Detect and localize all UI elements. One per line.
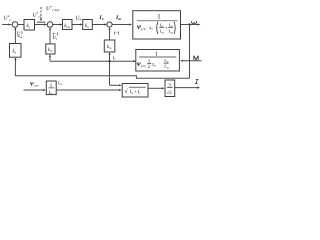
- svg-text:Lc: Lc: [48, 90, 54, 96]
- svg-text:Lм: Lм: [163, 64, 168, 70]
- svg-text:1: 1: [155, 51, 158, 57]
- svg-text:√: √: [124, 88, 128, 95]
- svg-text:√2: √2: [167, 90, 173, 96]
- svg-text:Lм: Lм: [168, 29, 173, 35]
- svg-text:·: ·: [159, 61, 160, 66]
- svg-text:1: 1: [50, 83, 53, 89]
- svg-text:Ψуст · zп ·: Ψуст · zп ·: [137, 25, 155, 31]
- svg-text:+: +: [165, 26, 168, 31]
- svg-text:Uc: Uc: [53, 35, 58, 41]
- svg-text:3: 3: [168, 83, 171, 89]
- svg-text:zи: zи: [151, 62, 156, 67]
- svg-text:(−): (−): [114, 30, 120, 35]
- svg-text:Lм: Lм: [159, 29, 164, 35]
- svg-text:1: 1: [157, 14, 160, 21]
- svg-text:Uя: Uя: [17, 33, 22, 39]
